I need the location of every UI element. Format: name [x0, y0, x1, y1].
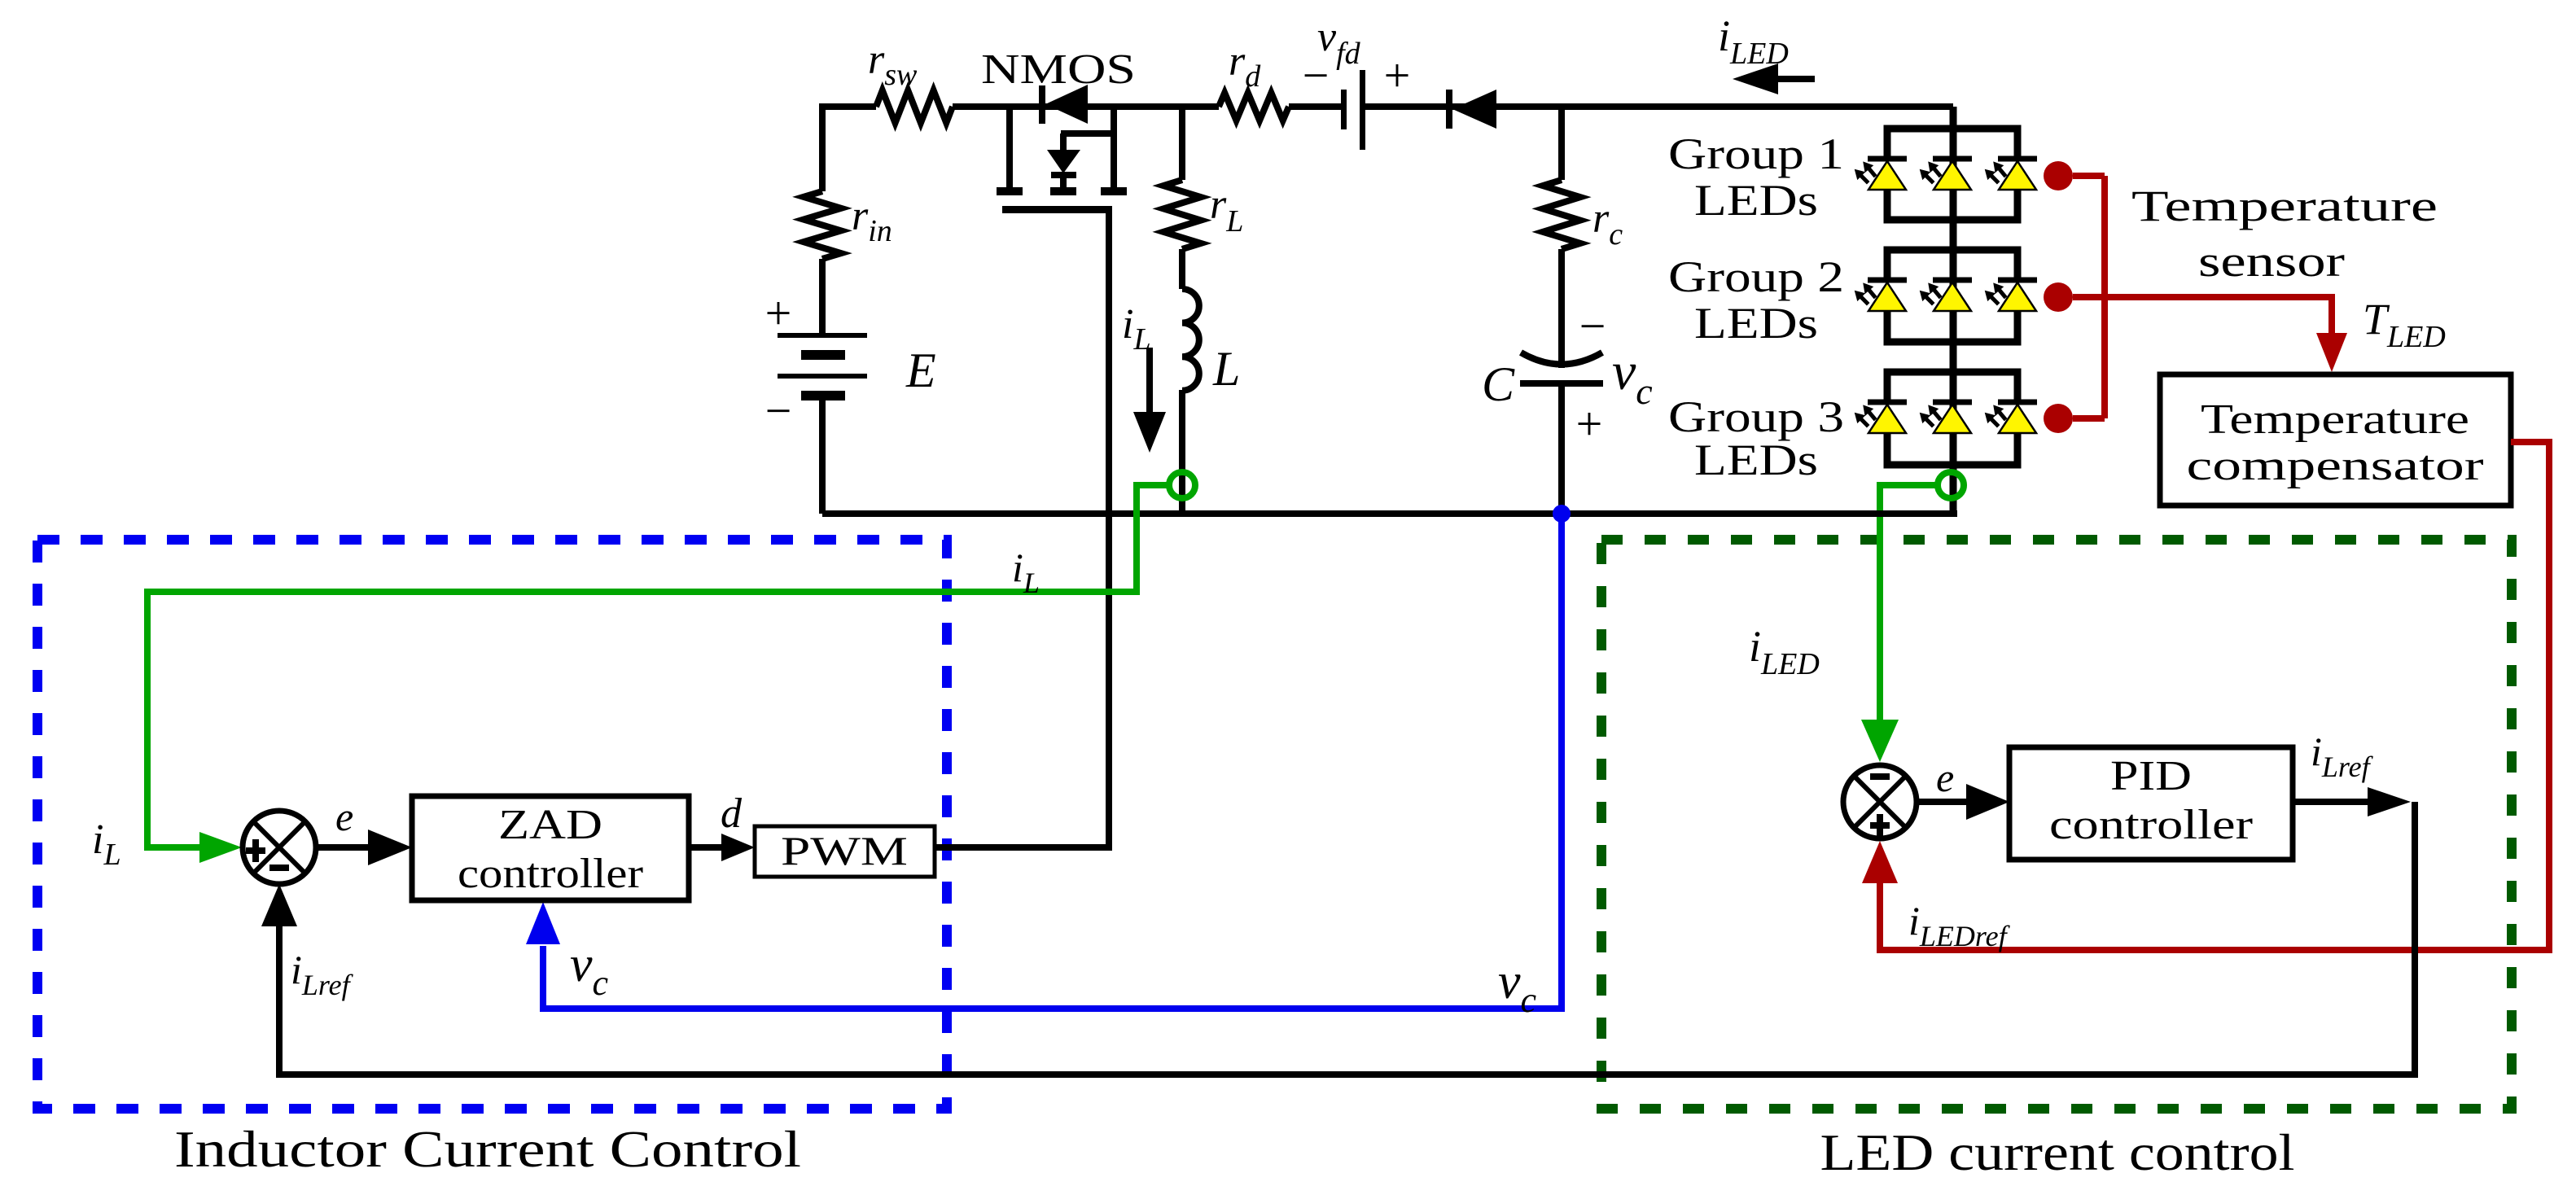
resistor r_sw: [876, 90, 953, 123]
wire: sensor line to T_LED: [2073, 297, 2332, 335]
wire: sense stub group 3: [2073, 415, 2105, 422]
svg-text:LEDs: LEDs: [1694, 176, 1818, 225]
resistor r_c: [1543, 180, 1580, 249]
wire: r_c to capacitor: [1558, 249, 1565, 368]
wire: gate to PWM: [935, 213, 1109, 847]
NMOS source stub: [1111, 107, 1117, 187]
summing junction (LED loop): [1843, 765, 1917, 838]
box ZAD controller: [412, 796, 689, 900]
arrow i_LEDref into summing junction: [1862, 841, 1898, 883]
wire: bottom rail over green crossing: [1863, 510, 1897, 517]
svg-text:−: −: [1303, 49, 1330, 102]
battery E plates: [778, 333, 867, 401]
LED group 1: [1887, 129, 2017, 220]
svg-text:d: d: [721, 790, 743, 837]
svg-text:Temperature: Temperature: [2131, 182, 2438, 230]
arrow i_L (inductor current): [1133, 348, 1166, 453]
summing junction (inductor loop): [243, 811, 316, 884]
svg-text:L: L: [1212, 342, 1240, 396]
LED D3a: [1851, 400, 1907, 434]
wire: r_L to inductor: [1179, 249, 1185, 289]
group 2 bottom rail: [1887, 310, 2017, 342]
temperature sense dots and bus: [2044, 161, 2073, 433]
svg-text:NMOS: NMOS: [981, 46, 1136, 93]
svg-text:Group 2: Group 2: [1668, 252, 1844, 301]
arrow v_c into ZAD controller: [526, 902, 560, 944]
box PWM: [755, 826, 935, 877]
svg-text:−: −: [1579, 300, 1606, 352]
group 2 top rail: [1887, 250, 2017, 281]
sense dot group 1: [2044, 161, 2073, 190]
LED D3c: [1981, 400, 2037, 434]
svg-text:LED current control: LED current control: [1820, 1123, 2295, 1181]
group 3 bottom rail: [1887, 432, 2017, 465]
NMOS body diode on top rail: [1039, 85, 1045, 124]
arrow i_Lref into summing junction (black): [261, 884, 297, 926]
wire: top rail left segment: [822, 107, 876, 191]
group 1 top rail: [1887, 129, 2017, 160]
arrow i_LED into summing junction: [1861, 720, 1899, 762]
arrow i_LED (top, pointing left): [1733, 63, 1815, 94]
wire: compensator output (red) to i_LEDref: [1880, 442, 2549, 950]
svg-text:C: C: [1482, 357, 1515, 411]
LED D2b: [1916, 278, 1972, 312]
wire: LED string center line: [1950, 107, 1957, 514]
wire: r_L branch upper lead: [1179, 107, 1185, 180]
diode D (freewheeling): [1446, 90, 1496, 129]
svg-text:Group 1: Group 1: [1668, 129, 1844, 178]
svg-text:e: e: [335, 794, 353, 839]
group 3 top rail: [1887, 372, 2017, 403]
svg-text:Temperature: Temperature: [2201, 396, 2469, 443]
sense dot group 3: [2044, 404, 2073, 433]
wire: inductor to bottom rail: [1179, 390, 1185, 514]
wire: capacitor to bottom rail: [1558, 383, 1565, 514]
arrow d into PWM box: [689, 834, 755, 861]
LED group 2: [1887, 250, 2017, 342]
LED D2c: [1981, 278, 2037, 312]
wire: i_LED feedback (green): [1880, 485, 1938, 720]
LED D3b: [1916, 400, 1972, 434]
wire: battery E to bottom rail: [819, 401, 826, 514]
arrow e into PID box: [1917, 784, 2009, 820]
wire: bottom rail: [822, 510, 1957, 517]
arrow T_LED into compensator: [2316, 333, 2347, 372]
group 1 bottom rail: [1887, 189, 2017, 220]
NMOS transistor: [997, 85, 1127, 213]
wire: i_L feedback (green): [147, 485, 1169, 847]
box Temperature compensator: [2160, 374, 2511, 506]
sensor loop i_L (green circle): [1169, 472, 1195, 498]
capacitor C straight plate: [1520, 380, 1603, 387]
sense dot group 2: [2044, 282, 2073, 312]
wire: sense stub group 1: [2073, 173, 2105, 179]
wire: sense bus vertical: [2101, 176, 2108, 418]
svg-text:+: +: [1576, 397, 1603, 450]
wire: i_Lref feedback (black): [279, 802, 2415, 1075]
LED group 3: [1887, 372, 2017, 465]
svg-text:ZAD: ZAD: [498, 802, 602, 848]
capacitor C curved plate: [1521, 352, 1602, 365]
svg-text:+: +: [1384, 49, 1411, 102]
junction dot v_c (blue): [1553, 505, 1571, 523]
svg-text:PID: PID: [2110, 753, 2192, 799]
svg-text:PWM: PWM: [781, 828, 908, 873]
wire: v_c feedback (blue): [543, 514, 1562, 1009]
svg-text:controller: controller: [458, 851, 643, 897]
svg-text:LEDs: LEDs: [1694, 436, 1818, 484]
dashed box: LED current control region: [1601, 540, 2512, 1109]
svg-text:e: e: [1936, 755, 1954, 800]
arrow i_L into summing junction: [199, 832, 242, 863]
dashed box: Inductor Current Control region: [37, 540, 947, 1109]
arrow e into ZAD box: [317, 829, 412, 865]
wire: top rail middle segment: [953, 103, 1219, 110]
LED D2a: [1851, 278, 1907, 312]
LED D1a: [1851, 156, 1907, 190]
svg-text:compensator: compensator: [2187, 443, 2484, 489]
inductor L: [1182, 289, 1199, 391]
wire: capacitor branch upper lead: [1558, 107, 1565, 180]
NMOS gate bar: [1002, 206, 1112, 213]
box PID controller: [2009, 747, 2293, 860]
svg-text:LEDs: LEDs: [1694, 299, 1818, 348]
wire: left branch r_in lead: [819, 259, 826, 335]
resistor r_in: [804, 191, 841, 259]
LED D1c: [1981, 156, 2037, 190]
battery v_fd plates: [1341, 70, 1365, 150]
NMOS drain stub: [1006, 107, 1013, 187]
svg-text:+: +: [765, 287, 792, 339]
resistor r_d: [1219, 93, 1289, 120]
sensor loop i_LED (green circle): [1938, 472, 1964, 498]
wire: r_d to v_fd battery: [1289, 103, 1341, 110]
arrow i_Lref out of PID: [2293, 787, 2411, 816]
svg-text:controller: controller: [2049, 802, 2253, 848]
LED D1b: [1916, 156, 1972, 190]
wire: v_fd battery to LED string top: [1365, 103, 1953, 110]
NMOS middle diode: [1061, 130, 1114, 137]
svg-text:−: −: [765, 384, 792, 437]
svg-text:E: E: [905, 344, 936, 397]
svg-text:sensor: sensor: [2198, 237, 2345, 286]
resistor r_L: [1163, 180, 1201, 249]
svg-text:Inductor Current Control: Inductor Current Control: [174, 1120, 801, 1178]
svg-text:Group 3: Group 3: [1668, 392, 1844, 441]
